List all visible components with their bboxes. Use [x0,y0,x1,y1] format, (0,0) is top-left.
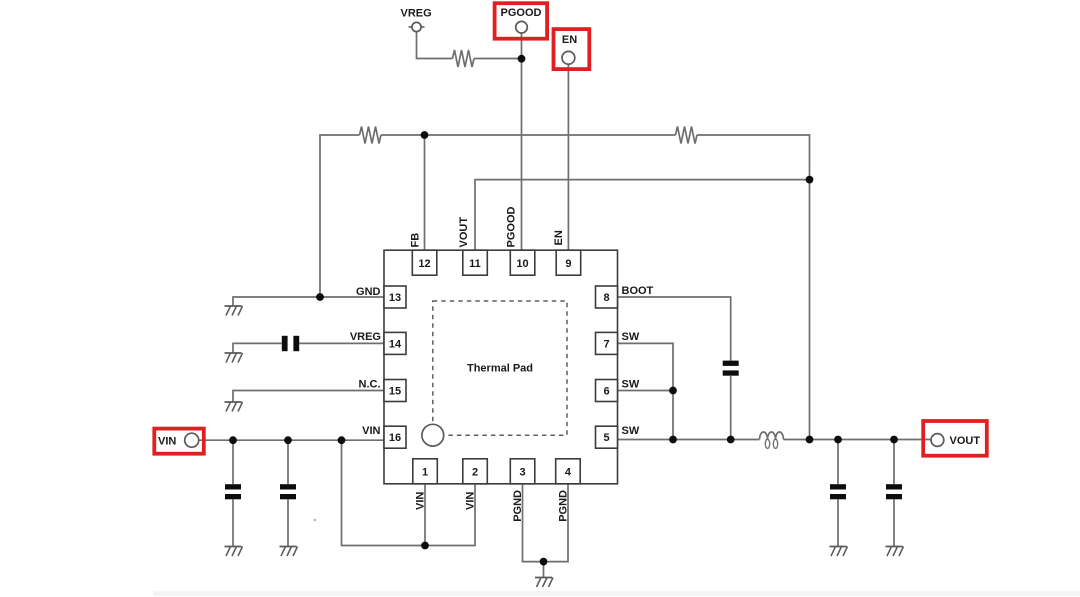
svg-text:EN: EN [553,230,565,245]
svg-text:PGOOD: PGOOD [501,7,542,19]
svg-text:VREG: VREG [350,331,381,343]
svg-text:SW: SW [622,331,640,343]
svg-text:15: 15 [389,386,401,398]
svg-text:3: 3 [519,466,525,478]
svg-text:SW: SW [622,425,640,437]
svg-text:6: 6 [603,386,609,398]
svg-text:BOOT: BOOT [622,285,654,297]
svg-text:VOUT: VOUT [458,217,470,248]
svg-text:14: 14 [389,338,402,350]
svg-text:9: 9 [565,258,571,270]
svg-text:7: 7 [603,338,609,350]
svg-text:8: 8 [603,292,609,304]
svg-text:11: 11 [469,258,481,270]
svg-text:PGND: PGND [558,490,570,522]
svg-text:Thermal Pad: Thermal Pad [467,363,533,375]
svg-text:1: 1 [422,466,428,478]
svg-text:PGOOD: PGOOD [506,206,518,247]
svg-text:N.C.: N.C. [359,378,381,390]
svg-text:13: 13 [389,292,401,304]
svg-text:PGND: PGND [512,490,524,522]
svg-text:VOUT: VOUT [950,435,981,447]
svg-text:12: 12 [418,258,430,270]
svg-text:VREG: VREG [401,8,432,20]
svg-text:VIN: VIN [465,492,477,510]
svg-text:VIN: VIN [362,425,380,437]
svg-text:16: 16 [389,432,401,444]
svg-text:VIN: VIN [158,435,176,447]
svg-text:SW: SW [622,378,640,390]
svg-text:5: 5 [603,432,609,444]
svg-text:4: 4 [565,466,572,478]
svg-text:EN: EN [562,34,577,46]
svg-text:2: 2 [472,466,478,478]
svg-text:VIN: VIN [415,492,427,510]
svg-text:FB: FB [410,233,422,248]
svg-text:GND: GND [356,286,381,298]
svg-text:10: 10 [516,258,528,270]
